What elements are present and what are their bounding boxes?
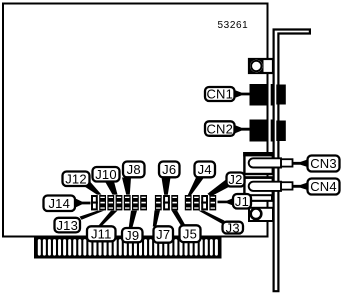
leader J13 to pad L2 [80, 211, 105, 220]
connector CN1 body [250, 84, 286, 106]
RCA jack CN3 plug opening [249, 158, 281, 167]
arrow CN3 to jack [293, 160, 308, 168]
leader J12 to pad L2 [83, 182, 102, 195]
RCA jack CN4 plug opening [249, 182, 281, 191]
svg-text:J1: J1 [235, 194, 249, 209]
label J10 [93, 167, 120, 182]
bottom screw hole [251, 209, 262, 220]
top screw hole [251, 61, 261, 71]
open jumper pad column L1 (J14) [91, 196, 98, 209]
label J3 [223, 220, 244, 235]
RCA jack CN4 body [244, 178, 272, 201]
svg-text:J12: J12 [65, 171, 87, 186]
jumper pad column L2 (J12) [99, 195, 106, 210]
leader J5 to pad M3 [172, 210, 186, 226]
leader J6 to pad M2 [162, 178, 171, 195]
card edge connector (gold fingers) [34, 237, 222, 258]
svg-text:53261: 53261 [218, 20, 249, 31]
svg-text:J4: J4 [198, 162, 212, 177]
label J14 [44, 196, 76, 212]
arrow J14 to pad L1 [76, 199, 91, 208]
leader J7 to pad M1 [153, 210, 160, 226]
open jumper pad column R3 (J3) [201, 196, 208, 209]
svg-text:CN1: CN1 [206, 87, 233, 102]
jumper pad column L6 (J8) [132, 195, 139, 210]
jumper pad column L7 (J9) [140, 195, 147, 210]
label CN3 [308, 156, 340, 172]
label CN4 [308, 179, 340, 195]
svg-text:J3: J3 [226, 220, 240, 235]
label J7 [154, 226, 174, 242]
arrow CN1 to connector [235, 90, 250, 98]
top screw tab [249, 59, 273, 73]
jumper pad column L5 (J11) [124, 195, 131, 210]
jumper pad column R1 (J4) [185, 195, 192, 210]
svg-text:J7: J7 [156, 227, 170, 242]
bottom screw tab [249, 208, 273, 221]
leader J4 to pad R1 [188, 178, 204, 196]
svg-text:CN2: CN2 [206, 121, 233, 136]
jumper pad column M3 (J5) [171, 195, 178, 210]
jumper pad column L3 (J13) [107, 195, 114, 210]
label CN2 [205, 121, 235, 136]
svg-text:CN4: CN4 [310, 179, 337, 194]
bracket (metal strip with top hook) [274, 30, 310, 292]
RCA jack CN3 barrel through bracket [281, 159, 293, 166]
open jumper pad column M2 (J6) [163, 196, 170, 209]
svg-text:J6: J6 [162, 162, 176, 177]
RCA jack CN3 body [244, 153, 272, 174]
leader J8 to pad L5 [122, 178, 131, 195]
label J6 [159, 162, 180, 178]
leader J3 to pad R3 [199, 211, 225, 224]
jumper pad column R2 (J2) [193, 195, 200, 210]
svg-text:J13: J13 [56, 218, 78, 233]
jumper pad column L4 (J10) [116, 195, 123, 210]
card outline (PCB) [3, 4, 268, 237]
leader J2 to pad R4 [208, 180, 233, 197]
label J13 [55, 218, 81, 233]
svg-text:J14: J14 [48, 196, 70, 211]
RCA jack CN4 top bar [243, 176, 274, 179]
label J9 [122, 228, 143, 243]
arrow J1 to pad R4 [218, 198, 234, 206]
label CN1 [205, 87, 235, 102]
arrow CN2 to connector [235, 125, 250, 134]
label J8 [123, 162, 145, 178]
label J12 [63, 171, 90, 186]
leader J9 to pad L6 [129, 211, 137, 228]
svg-text:J10: J10 [95, 167, 117, 182]
leader J11 to pad L4 [98, 211, 118, 227]
svg-text:J11: J11 [91, 227, 112, 242]
label J2 [227, 172, 245, 187]
svg-text:CN3: CN3 [310, 156, 337, 171]
label J5 [180, 225, 201, 242]
svg-text:J8: J8 [127, 162, 141, 177]
jumper pad column M1 (J7) [155, 195, 162, 210]
svg-text:J2: J2 [228, 172, 242, 187]
arrow CN4 to jack [293, 183, 308, 191]
label J1 [233, 194, 251, 209]
svg-text:J5: J5 [183, 226, 197, 241]
svg-text:J9: J9 [125, 228, 139, 243]
small opening below CN4 jack [251, 195, 273, 201]
RCA jack CN3 top bar [243, 152, 274, 156]
top screw tab black section [249, 59, 264, 74]
label J4 [195, 162, 216, 178]
RCA jack CN4 barrel through bracket [281, 182, 293, 189]
jumper pad column R4 (J1) [209, 195, 216, 210]
connector CN2 body [250, 120, 286, 142]
label J11 [87, 226, 116, 241]
leader J10 to pad L4 [105, 182, 118, 195]
